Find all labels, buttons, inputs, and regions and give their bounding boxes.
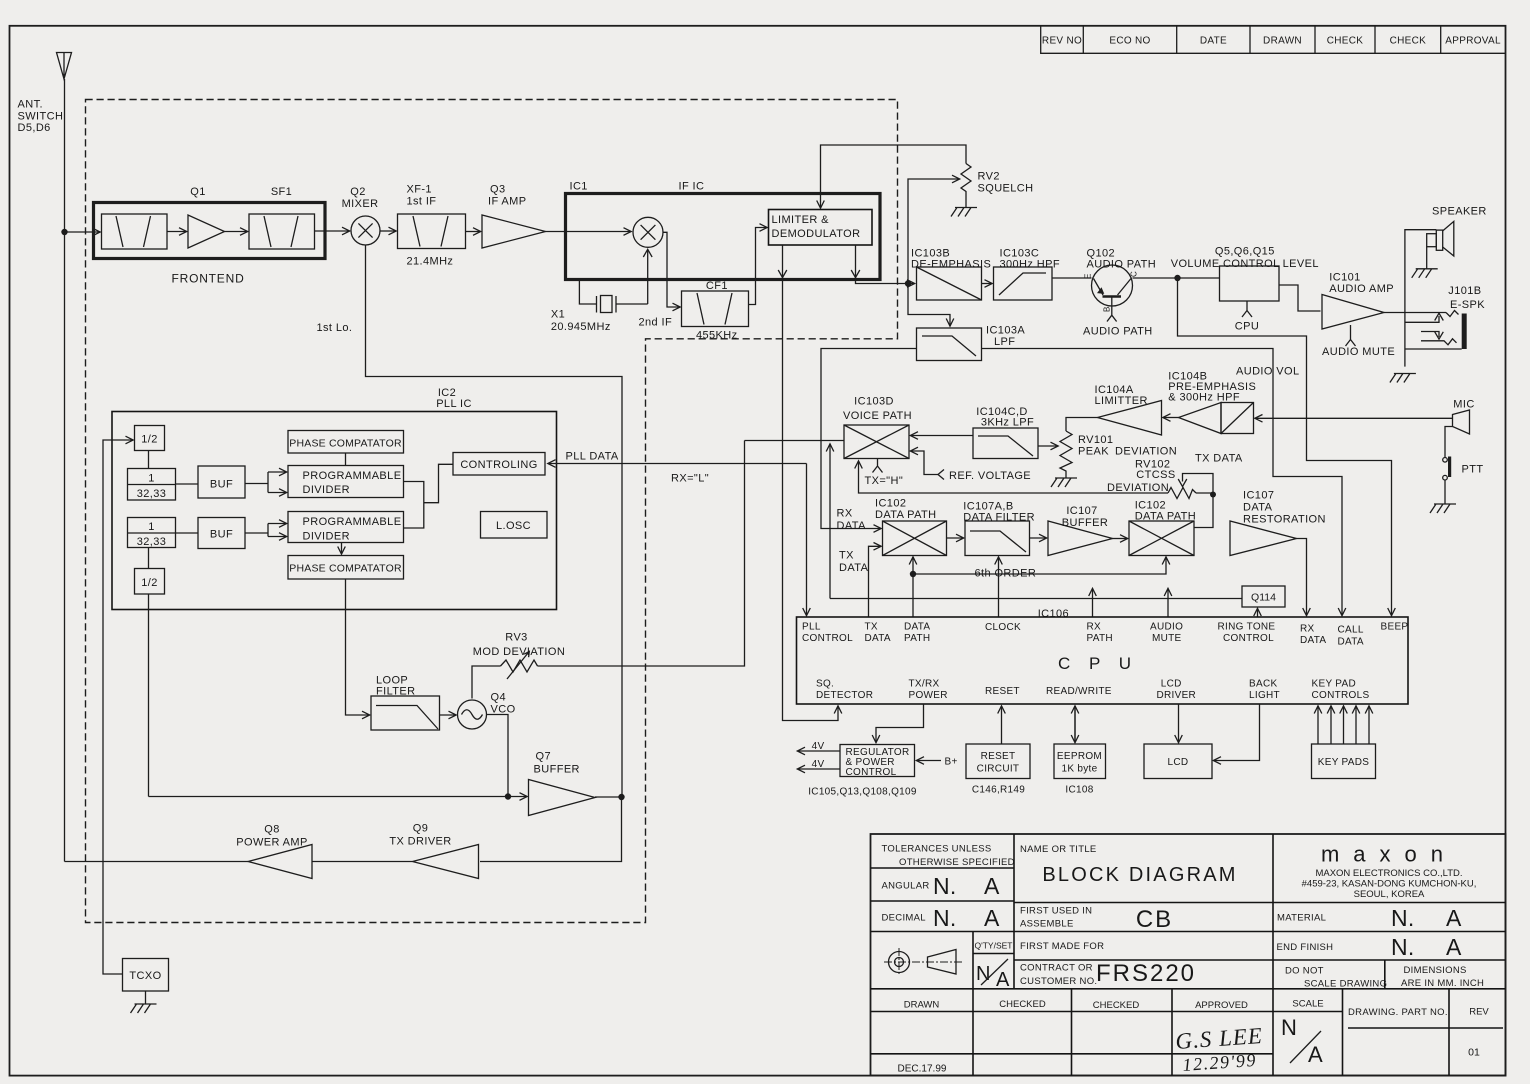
wire mic to PTT [1445, 427, 1453, 458]
svg-text:1st Lo.: 1st Lo. [317, 322, 353, 334]
wire 3KHz LPF to RV101 wiper [1038, 445, 1058, 447]
svg-text:PLL: PLL [802, 622, 821, 633]
svg-text:FIRST USED IN: FIRST USED IN [1020, 906, 1092, 917]
wire speaker ground lead [1426, 247, 1428, 269]
block loop filter [371, 696, 440, 730]
svg-text:TX DATA: TX DATA [1195, 453, 1243, 465]
filter CF1 [682, 291, 749, 327]
svg-text:RX: RX [837, 508, 853, 520]
svg-text:PHASE COMPATATOR: PHASE COMPATATOR [289, 563, 402, 575]
svg-text:CONTROLS: CONTROLS [1312, 690, 1370, 701]
wire call data line (LPF out to CPU CALL DATA) [982, 349, 1343, 616]
svg-text:B: B [1103, 307, 1112, 312]
svg-text:CF1: CF1 [706, 280, 728, 292]
svg-text:EEPROM: EEPROM [1057, 751, 1102, 762]
svg-text:IC107: IC107 [1243, 490, 1274, 502]
amplifier IC107 data restoration [1230, 521, 1297, 556]
wire volume to audio amp [1279, 285, 1321, 311]
svg-text:DEMODULATOR: DEMODULATOR [772, 228, 861, 240]
block EEPROM 1K byte [1054, 744, 1106, 779]
wire TCXO ground lead [145, 991, 147, 1004]
svg-text:DRAWING. PART NO.: DRAWING. PART NO. [1348, 1007, 1448, 1018]
label IC107A,B DATA FILTER [963, 501, 1035, 524]
svg-text:DATA: DATA [1300, 635, 1326, 646]
filter (input BPF) [102, 214, 168, 249]
wire antenna to frontend [65, 231, 101, 233]
resistor RV2 [961, 164, 971, 208]
filter IC103A LPF [917, 328, 982, 361]
wire limiter feedback to squelch [821, 145, 967, 208]
svg-text:C P U: C P U [1058, 654, 1138, 673]
svg-text:LIMITTER: LIMITTER [1095, 395, 1148, 407]
svg-text:PLL IC: PLL IC [436, 398, 472, 410]
svg-text:BEEP: BEEP [1381, 622, 1409, 633]
svg-text:E: E [1084, 274, 1093, 279]
svg-text:RX: RX [1300, 624, 1315, 635]
N. A end finish [1391, 934, 1462, 960]
svg-text:B+: B+ [945, 757, 958, 768]
svg-text:LIGHT: LIGHT [1249, 690, 1280, 701]
svg-text:CIRCUIT: CIRCUIT [977, 764, 1020, 775]
wire TX/RX POWER to regulator [876, 704, 924, 743]
svg-text:MIC: MIC [1453, 399, 1474, 411]
svg-text:DRIVER: DRIVER [1157, 690, 1197, 701]
svg-text:REV: REV [1469, 1007, 1489, 1018]
svg-text:NAME OR TITLE: NAME OR TITLE [1020, 844, 1097, 855]
svg-text:MAXON ELECTRONICS CO.,LTD.: MAXON ELECTRONICS CO.,LTD. [1315, 868, 1462, 879]
wire de-emphasis to 300Hz HPF [982, 283, 993, 285]
svg-text:IC1: IC1 [570, 181, 588, 193]
wire CPU clock to data filter [998, 557, 1000, 617]
wire phase comp 1 to divider 1 [345, 453, 347, 466]
svg-text:A: A [1446, 905, 1462, 931]
svg-text:DIVIDER: DIVIDER [303, 531, 350, 543]
svg-text:KEY PAD: KEY PAD [1312, 679, 1357, 690]
svg-text:PROGRAMMABLE: PROGRAMMABLE [303, 516, 402, 528]
wire Q1 to SF1 [225, 231, 248, 233]
wire VCO out to buffer node [487, 715, 509, 797]
node VCO-buffer junction [505, 793, 511, 799]
block phase compatator 2 [288, 556, 404, 580]
label LOOP FILTER [376, 675, 415, 698]
limiter-demodulator box [769, 210, 873, 246]
svg-text:3KHz LPF: 3KHz LPF [981, 417, 1034, 429]
svg-text:4V: 4V [812, 759, 825, 770]
wire buffer to data path 2 [1113, 538, 1128, 540]
svg-text:TX/RX: TX/RX [909, 679, 940, 690]
filter XF-1 [398, 214, 466, 249]
speaker icon [1427, 221, 1454, 256]
svg-text:DO NOT: DO NOT [1285, 966, 1324, 977]
svg-text:SEOUL, KOREA: SEOUL, KOREA [1354, 889, 1425, 900]
wire amp to jack tip [1384, 312, 1446, 314]
svg-text:#459-23, KASAN-DONG KUMCHON-KU: #459-23, KASAN-DONG KUMCHON-KU, [1302, 879, 1477, 890]
svg-text:1/2: 1/2 [141, 577, 158, 589]
svg-text:CTCSS: CTCSS [1136, 469, 1175, 481]
label 4V 4V [812, 741, 825, 770]
svg-text:TX: TX [839, 550, 854, 562]
maxon address lines [1302, 868, 1477, 900]
svg-text:VOLUME CONTROL LEVEL: VOLUME CONTROL LEVEL [1171, 258, 1319, 270]
antenna [57, 53, 72, 80]
RV3 variable arrow [507, 651, 529, 679]
svg-text:A: A [1308, 1042, 1323, 1067]
svg-text:CUSTOMER NO.: CUSTOMER NO. [1020, 976, 1097, 987]
signal stub CPU (volume control) [1242, 301, 1252, 317]
wire limiter audio output down [856, 245, 915, 284]
wire CPU RX PATH arrow [1092, 589, 1094, 618]
wire TX DATA from CPU to data path 1 [869, 546, 882, 617]
svg-text:IC106: IC106 [1038, 608, 1069, 620]
svg-text:CONTROL: CONTROL [802, 633, 853, 644]
svg-text:ASSEMBLE: ASSEMBLE [1020, 919, 1074, 930]
label RV2 SQUELCH [978, 171, 1034, 195]
svg-text:AUDIO VOL: AUDIO VOL [1236, 366, 1300, 378]
svg-text:DATE: DATE [1200, 36, 1227, 47]
wire reset circuit to CPU [1001, 706, 1003, 744]
wire 4V output top [798, 750, 841, 752]
svg-text:& 300Hz HPF: & 300Hz HPF [1168, 392, 1240, 404]
label RV102 CTCSS DEVIATION [1107, 459, 1176, 495]
svg-text:DRAWN: DRAWN [904, 1000, 940, 1011]
svg-text:RESET: RESET [985, 686, 1020, 697]
node TX junction [618, 794, 624, 800]
svg-text:IC102: IC102 [875, 498, 906, 510]
block KEY PADS [1312, 744, 1376, 779]
arrowhead on SQ line at IC1 edge [778, 270, 787, 278]
svg-text:DATA FILTER: DATA FILTER [963, 512, 1035, 524]
node 6th order junction [910, 571, 916, 577]
block TCXO [123, 959, 169, 992]
svg-text:TCXO: TCXO [129, 970, 161, 982]
svg-text:DECIMAL: DECIMAL [882, 913, 926, 924]
svg-text:TX="H": TX="H" [865, 475, 904, 487]
svg-text:N.: N. [1391, 934, 1415, 960]
label IC104A LIMITTER [1095, 384, 1148, 407]
svg-text:1: 1 [148, 473, 155, 485]
svg-text:AUDIO MUTE: AUDIO MUTE [1322, 346, 1395, 358]
svg-text:PHASE COMPATATOR: PHASE COMPATATOR [289, 438, 402, 450]
svg-text:01: 01 [1468, 1047, 1480, 1059]
revision table [1041, 26, 1506, 54]
label Q3 IF AMP [488, 184, 526, 208]
resistor RV3 [501, 660, 538, 672]
svg-text:LIMITER &: LIMITER & [772, 214, 830, 226]
svg-text:Q4: Q4 [491, 692, 506, 704]
resistor RV101 [1060, 431, 1072, 478]
block BUF bottom [198, 518, 245, 549]
svg-text:RV2: RV2 [978, 171, 1000, 183]
svg-text:REV NO: REV NO [1042, 36, 1082, 47]
block reset circuit [966, 744, 1030, 779]
svg-text:LCD: LCD [1168, 757, 1189, 768]
svg-text:AUDIO PATH: AUDIO PATH [1083, 326, 1153, 338]
wire 1/2 to 32,33 [148, 451, 150, 469]
svg-text:2nd IF: 2nd IF [639, 317, 673, 329]
block programmable divider 1 [288, 466, 404, 498]
svg-text:Q5,Q6,Q15: Q5,Q6,Q15 [1215, 246, 1275, 258]
label FIRST USED IN ASSEMBLE [1020, 906, 1092, 930]
label RV3 MOD DEVIATION [473, 632, 565, 659]
label RV101 PEAK DEVIATION [1078, 434, 1177, 458]
label X1 20.945MHz [551, 309, 611, 334]
wires key pads to CPU [1318, 706, 1369, 744]
crystal X1 [579, 249, 652, 312]
svg-text:ANGULAR: ANGULAR [882, 881, 930, 892]
svg-text:APPROVAL: APPROVAL [1445, 36, 1501, 47]
svg-text:LCD: LCD [1161, 679, 1182, 690]
wire audio node down to LPF top [908, 284, 950, 327]
label IC107 BUFFER [1062, 505, 1108, 529]
wire TX node down to Q9 [480, 797, 622, 862]
svg-text:TX: TX [865, 622, 878, 633]
svg-text:IC108: IC108 [1065, 785, 1093, 796]
svg-text:AUDIO PATH: AUDIO PATH [1087, 259, 1157, 271]
node beep/audio junction [1174, 275, 1180, 281]
svg-text:SPEAKER: SPEAKER [1432, 206, 1487, 218]
svg-text:REF. VOLTAGE: REF. VOLTAGE [949, 470, 1031, 482]
svg-text:Q'TY/SET: Q'TY/SET [975, 941, 1013, 951]
jack J101B [1405, 311, 1467, 350]
svg-text:1/2: 1/2 [141, 434, 158, 446]
filter IC104C,D 3KHz LPF [973, 428, 1038, 459]
wire 1st Lo (mixer Q2 to TX node) [366, 245, 623, 797]
svg-text:N: N [1281, 1015, 1297, 1040]
ground PTT [1430, 504, 1456, 513]
svg-text:IF AMP: IF AMP [488, 196, 526, 208]
block phase compatator 1 [288, 431, 404, 454]
svg-text:N: N [976, 963, 991, 985]
label IC107 DATA RESTORATION [1243, 490, 1326, 526]
block 1/32,33 prescaler bottom [128, 518, 176, 549]
svg-text:MOD DEVIATION: MOD DEVIATION [473, 646, 565, 658]
svg-text:1K byte: 1K byte [1061, 764, 1097, 775]
svg-text:END FINISH: END FINISH [1277, 942, 1334, 953]
wire XF-1 to Q3 [466, 231, 481, 233]
svg-text:N.: N. [933, 873, 957, 899]
ground RV101 [1051, 478, 1077, 487]
wire antenna feed vertical [64, 79, 66, 862]
wire divider 2 to phase compatator 2 [341, 543, 343, 555]
svg-text:CPU: CPU [1235, 321, 1259, 333]
label IC104C,D 3KHz LPF [976, 406, 1034, 429]
wire CPU read/write EEPROM (bidirectional) [1074, 706, 1076, 743]
svg-text:AUDIO AMP: AUDIO AMP [1329, 283, 1394, 295]
amplifier IC101 AUDIO AMP [1322, 295, 1384, 330]
svg-text:XF-1: XF-1 [407, 184, 432, 196]
svg-text:Q3: Q3 [490, 184, 505, 196]
signal stub TX="H" [873, 459, 883, 473]
wire 32,33-2 to 1/2 bottom [148, 548, 150, 569]
filter IC107A,B data filter [965, 521, 1030, 556]
block Q114 [1242, 586, 1285, 607]
label Q4 VCO [491, 692, 516, 716]
svg-text:maxon: maxon [1321, 842, 1457, 867]
wire Q8 to antenna [65, 861, 249, 863]
label DO NOT SCALE DRAWING [1285, 966, 1387, 990]
svg-text:C: C [1130, 271, 1139, 277]
wire VCO mod input from RV3 [472, 441, 745, 699]
svg-text:D5,D6: D5,D6 [18, 122, 51, 134]
amplifier IC107 buffer [1048, 521, 1113, 556]
frontend thick box [94, 203, 326, 259]
svg-text:6th ORDER: 6th ORDER [975, 568, 1037, 580]
node CTCSS junction [1210, 492, 1216, 498]
node antenna junction [61, 229, 67, 235]
switch PTT [1443, 457, 1452, 481]
wire back light to LCD [1214, 704, 1260, 761]
title block frame [871, 834, 1506, 1076]
label ANT. SWITCH D5,D6 [18, 99, 64, 135]
svg-text:ANT.: ANT. [18, 99, 43, 111]
wire SF1 to mixer Q2 [315, 230, 350, 232]
wire data filter to buffer [1030, 537, 1047, 539]
block regulator & power control [840, 745, 915, 779]
wire filter to Q1 [167, 231, 187, 233]
IC2 PLL IC box [112, 412, 557, 610]
svg-text:MIXER: MIXER [342, 198, 379, 210]
svg-text:300Hz HPF: 300Hz HPF [1000, 259, 1060, 271]
N/A qty [976, 959, 1010, 991]
svg-text:DIVIDER: DIVIDER [303, 484, 350, 496]
svg-text:DEVIATION: DEVIATION [1107, 482, 1169, 494]
N. A angular [933, 873, 1000, 899]
svg-text:LPF: LPF [994, 336, 1015, 348]
block L.OSC [481, 512, 548, 539]
svg-text:SQUELCH: SQUELCH [978, 183, 1034, 195]
svg-text:DRAWN: DRAWN [1263, 36, 1302, 47]
svg-text:L.OSC: L.OSC [496, 520, 531, 532]
svg-text:N.: N. [1391, 905, 1415, 931]
wire BUF fork to divider [245, 472, 287, 493]
svg-text:DATA: DATA [1338, 637, 1364, 648]
svg-text:PLL DATA: PLL DATA [566, 451, 619, 463]
svg-text:CHECK: CHECK [1327, 36, 1364, 47]
svg-text:CLOCK: CLOCK [985, 622, 1021, 633]
svg-text:A: A [1446, 934, 1462, 960]
svg-text:1: 1 [148, 521, 155, 533]
svg-text:A: A [984, 873, 1000, 899]
IC1 IF IC thick box [566, 194, 881, 280]
block IC103D voice path [844, 425, 909, 459]
label IC103B DE-EMPHASIS [911, 248, 991, 271]
wire speaker feed [1405, 230, 1436, 367]
svg-text:IC107: IC107 [1066, 505, 1097, 517]
svg-text:DATA: DATA [839, 562, 869, 574]
svg-text:32,33: 32,33 [137, 536, 167, 548]
block controling [453, 453, 545, 476]
svg-text:IC103D: IC103D [854, 396, 894, 408]
svg-text:SWITCH: SWITCH [18, 111, 64, 123]
dashed RF section boundary [86, 100, 898, 923]
svg-text:BACK: BACK [1249, 679, 1277, 690]
mixer 2nd (inside IC1) [633, 217, 663, 247]
CPU top pin labels [802, 622, 1408, 648]
svg-text:Q7: Q7 [536, 751, 551, 763]
wire 6th order clock branch [913, 557, 1166, 574]
N/A scale [1281, 1015, 1323, 1067]
label DIMENSIONS ARE IN MM. INCH [1401, 965, 1484, 989]
amplifier Q1 [188, 215, 225, 248]
svg-text:OTHERWISE SPECIFIED: OTHERWISE SPECIFIED [899, 857, 1015, 868]
svg-text:IC101: IC101 [1329, 272, 1360, 284]
svg-text:E-SPK: E-SPK [1450, 299, 1485, 311]
svg-text:VOICE PATH: VOICE PATH [843, 410, 912, 422]
label IC103D VOICE PATH [843, 396, 912, 423]
svg-text:PATH: PATH [904, 633, 930, 644]
label Q7 BUFFER [534, 751, 580, 776]
svg-text:N.: N. [933, 905, 957, 931]
wire CF1 to limiter [749, 228, 768, 305]
svg-text:Q114: Q114 [1251, 592, 1276, 604]
svg-text:RESET: RESET [981, 751, 1016, 762]
amplifier Q9 TX DRIVER [413, 845, 479, 879]
wire HPF to Q102 [1052, 277, 1092, 279]
svg-text:TX DRIVER: TX DRIVER [389, 836, 451, 848]
svg-text:IC105,Q13,Q108,Q109: IC105,Q13,Q108,Q109 [808, 787, 917, 798]
wire CTCSS wiper loop [1178, 474, 1213, 495]
wire phase comp 2 to loop filter [346, 579, 370, 715]
wire LPF left to RX DATA input [821, 349, 917, 529]
wire pre-emphasis to limitter [1163, 417, 1179, 419]
svg-text:CHECKED: CHECKED [1093, 1000, 1140, 1011]
label IC103C 300Hz HPF [1000, 248, 1060, 271]
filter SF1 [249, 214, 315, 249]
wire CPU to LCD [1178, 704, 1180, 743]
amplifier Q7 BUFFER [529, 780, 596, 816]
mixer Q2 [351, 216, 380, 245]
wire CPU AUDIO MUTE arrow [1167, 589, 1169, 618]
ground RV2 [951, 208, 977, 217]
label Q5,Q6,Q15 VOLUME CONTROL LEVEL [1171, 246, 1319, 271]
amplifier IC104A limitter (points left) [1098, 401, 1162, 436]
svg-text:Q8: Q8 [264, 824, 279, 836]
svg-text:CALL: CALL [1338, 625, 1364, 636]
svg-text:20.945MHz: 20.945MHz [551, 321, 611, 333]
block 1/2 divider top [135, 426, 165, 451]
svg-text:IC103A: IC103A [986, 325, 1025, 337]
svg-text:A: A [984, 905, 1000, 931]
label IC103A LPF [986, 325, 1025, 349]
node audio junction [905, 280, 911, 286]
wire VCO feedback into 1/2 bottom [148, 594, 150, 797]
svg-text:SF1: SF1 [271, 186, 292, 198]
label IC101 AUDIO AMP [1329, 272, 1394, 296]
block programmable divider 2 [288, 512, 404, 543]
svg-text:DATA: DATA [865, 633, 891, 644]
resistor RV102 [1168, 488, 1196, 499]
wire PTT to ground [1444, 480, 1446, 504]
microphone icon [1453, 410, 1470, 434]
svg-text:RING TONE: RING TONE [1218, 622, 1276, 633]
svg-text:AUDIO: AUDIO [1150, 622, 1183, 633]
svg-text:BLOCK DIAGRAM: BLOCK DIAGRAM [1042, 864, 1237, 886]
wire Q9 to Q8 [312, 861, 413, 863]
projection symbol [884, 948, 963, 976]
svg-text:455KHz: 455KHz [696, 330, 738, 342]
svg-text:ECO NO: ECO NO [1109, 36, 1150, 47]
svg-text:DIMENSIONS: DIMENSIONS [1404, 965, 1467, 976]
svg-text:DEVIATION: DEVIATION [1115, 446, 1177, 458]
svg-text:MATERIAL: MATERIAL [1277, 913, 1326, 924]
svg-text:21.4MHz: 21.4MHz [407, 256, 454, 268]
svg-text:CONTROL: CONTROL [1223, 633, 1274, 644]
wire 3KHz LPF to voice path [911, 435, 974, 437]
svg-text:FIRST MADE FOR: FIRST MADE FOR [1020, 941, 1104, 952]
block LCD [1144, 744, 1212, 779]
N. A decimal [933, 905, 1000, 931]
label TX DATA (input) [839, 550, 869, 575]
